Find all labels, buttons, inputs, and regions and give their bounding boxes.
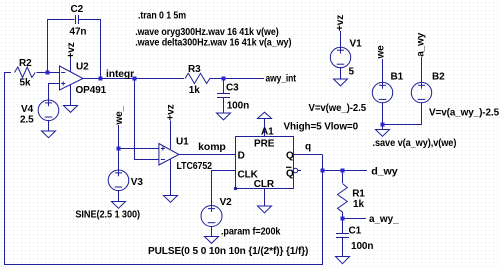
ground below U2 xyxy=(64,106,78,113)
wire: flip-flop Q output to q node xyxy=(294,154,323,156)
svg-text:U1: U1 xyxy=(176,137,189,148)
resistor R2 xyxy=(15,67,36,78)
voltage source V2 xyxy=(201,206,222,227)
wire: R1 top lead xyxy=(342,171,344,184)
svg-text:47n: 47n xyxy=(70,27,87,38)
svg-text:R1: R1 xyxy=(352,189,365,200)
wire: U2 +vz supply pin xyxy=(70,59,72,73)
wire: komp U1 output to flip-flop D xyxy=(179,154,236,156)
wire: C1 bottom lead xyxy=(342,238,344,257)
svg-text:integr: integr xyxy=(106,69,134,80)
wire: V2 bottom lead xyxy=(211,226,213,236)
svg-text:a_wy: a_wy xyxy=(415,32,426,57)
svg-text:C1: C1 xyxy=(349,225,362,236)
ground below V3 xyxy=(112,202,126,209)
wire: CLK to V2 xyxy=(212,171,236,206)
U1 minus sign xyxy=(161,159,165,161)
node: integr junction xyxy=(133,77,137,81)
svg-text:1k: 1k xyxy=(189,85,200,96)
Qbar bubble xyxy=(293,168,298,173)
ground below C3 xyxy=(217,113,231,120)
svg-text:komp: komp xyxy=(198,142,226,153)
svg-text:+vz: +vz xyxy=(166,104,177,120)
svg-text:A1: A1 xyxy=(261,127,274,138)
node: R3 / C3 junction xyxy=(222,77,226,81)
svg-text:.wave oryg300Hz.wav 16 41k v(w: .wave oryg300Hz.wav 16 41k v(we) xyxy=(135,27,278,38)
wire: Qbar stub after bubble xyxy=(298,170,301,172)
svg-text:R3: R3 xyxy=(188,64,201,75)
wire: V3 bottom lead xyxy=(118,190,120,201)
svg-text:V=v(a_wy_)-2.5: V=v(a_wy_)-2.5 xyxy=(429,108,500,119)
wire: R3 to awy_int xyxy=(210,78,265,80)
svg-text:R2: R2 xyxy=(19,58,32,69)
wire: V4 bottom lead xyxy=(48,120,50,131)
svg-text:PRE: PRE xyxy=(254,139,275,150)
wire: B1 top lead xyxy=(382,59,384,82)
svg-text:+vz: +vz xyxy=(335,15,346,31)
wire: feedback loop left vertical xyxy=(48,20,75,73)
wire: gnd stub below B1/B2 junction xyxy=(382,125,384,130)
svg-text:a_wy_: a_wy_ xyxy=(369,214,399,225)
node: U2 output / C2 junction xyxy=(99,77,103,81)
wire: CLR pin stub xyxy=(264,189,266,207)
wire: C3 top lead xyxy=(223,79,225,94)
voltage source V1 xyxy=(330,47,350,67)
wire: a_wy_ branch xyxy=(343,218,367,220)
svg-text:1k: 1k xyxy=(353,199,364,210)
svg-text:LTC6752: LTC6752 xyxy=(177,161,213,172)
svg-text:.param f=200k: .param f=200k xyxy=(221,227,281,238)
svg-text:SINE(2.5 1 300): SINE(2.5 1 300) xyxy=(75,210,140,221)
wire: B2 top lead xyxy=(421,57,423,83)
capacitor C1 plates xyxy=(336,233,349,235)
svg-text:V3: V3 xyxy=(131,177,144,188)
wire: U2 output xyxy=(83,78,184,80)
ground below V2 xyxy=(205,237,219,244)
svg-text:C3: C3 xyxy=(226,83,239,94)
wire: V1 bottom lead xyxy=(340,67,342,79)
node: a_wy_ junction xyxy=(341,217,345,221)
svg-text:5k: 5k xyxy=(20,78,31,89)
svg-text:PULSE(0 5 0 10n 10n {1/(2*f)}: PULSE(0 5 0 10n 10n {1/(2*f)} {1/f}) xyxy=(148,246,308,257)
ground below U1 xyxy=(164,196,178,203)
ground below C1 xyxy=(336,257,350,264)
Qbar overline xyxy=(286,166,292,168)
capacitor C3 plates xyxy=(217,93,230,95)
node: q junction xyxy=(321,169,325,173)
ground below B1/B2 junction xyxy=(376,130,390,137)
resistor R3 xyxy=(185,73,210,83)
svg-text:Vhigh=5 Vlow=0: Vhigh=5 Vlow=0 xyxy=(284,122,359,133)
svg-text:D: D xyxy=(238,151,245,162)
wire: C1 top lead xyxy=(342,219,344,234)
svg-text:B1: B1 xyxy=(391,72,404,83)
flip-flop corner dot xyxy=(234,187,237,190)
svg-text:C2: C2 xyxy=(71,4,84,15)
svg-text:V2: V2 xyxy=(220,197,233,208)
wire: B1 bottom lead xyxy=(382,103,384,125)
svg-text:Q: Q xyxy=(286,151,294,162)
svg-text:CLR: CLR xyxy=(254,179,275,190)
ground below V1 xyxy=(334,79,348,86)
svg-text:100n: 100n xyxy=(351,241,373,252)
flip-flop A1 box xyxy=(236,137,294,189)
op-amp U2 triangle xyxy=(60,66,84,90)
ground below V4 xyxy=(42,131,56,138)
resistor R1 xyxy=(338,184,348,213)
svg-text:2.5: 2.5 xyxy=(20,115,34,126)
voltage source V4 xyxy=(38,100,59,121)
svg-text:.save v(a_wy),v(we): .save v(a_wy),v(we) xyxy=(373,138,457,149)
node: B1/B2 ground junction xyxy=(381,123,385,127)
U2 plus sign xyxy=(61,83,65,85)
wire: V1 top lead xyxy=(340,31,342,48)
U1 plus sign xyxy=(161,148,165,150)
svg-text:awy_int: awy_int xyxy=(266,74,297,85)
voltage source V3 xyxy=(108,170,129,191)
node: minus input / C2 junction xyxy=(46,71,50,75)
svg-text:100n: 100n xyxy=(227,101,249,112)
bv source B1 xyxy=(372,82,392,102)
wire: input left lead and outer loop xyxy=(5,73,323,265)
wire: we_ label lead down to V3 xyxy=(118,125,120,171)
wire: U1 negative supply pin xyxy=(170,159,172,196)
wire: q junction to d_wy xyxy=(323,170,368,172)
node: we_ junction xyxy=(117,147,121,151)
svg-text:.wave delta300Hz.wav 16 41k v(: .wave delta300Hz.wav 16 41k v(a_wy) xyxy=(135,38,291,49)
capacitor C2 plates xyxy=(75,15,77,24)
wire: U1 +vz supply pin xyxy=(170,121,172,150)
bv source B2 xyxy=(411,82,431,102)
svg-text:U2: U2 xyxy=(76,61,89,72)
wire: U2 plus input xyxy=(49,84,60,101)
svg-text:OP491: OP491 xyxy=(76,85,107,96)
comparator U1 triangle xyxy=(159,144,179,166)
svg-text:5: 5 xyxy=(349,67,355,78)
svg-text:we: we xyxy=(376,45,387,60)
svg-text:we_: we_ xyxy=(114,105,125,125)
wire: B2 bottom to junction xyxy=(383,102,422,124)
ground below CLR xyxy=(258,206,272,213)
svg-text:+vz: +vz xyxy=(66,42,77,58)
wire: feedback loop right xyxy=(79,20,101,79)
svg-text:V=v(we_)-2.5: V=v(we_)-2.5 xyxy=(309,103,367,114)
wire: C3 bottom lead xyxy=(223,98,225,114)
svg-text:d_wy: d_wy xyxy=(371,166,398,177)
svg-text:V1: V1 xyxy=(350,38,363,49)
wire: R1 bottom lead xyxy=(342,212,344,219)
node: d_wy junction xyxy=(341,169,345,173)
svg-text:B2: B2 xyxy=(432,72,445,83)
svg-text:q: q xyxy=(305,142,311,153)
wire: R2 to op-amp minus input xyxy=(37,72,60,74)
svg-text:.tran 0 1 5m: .tran 0 1 5m xyxy=(138,11,186,22)
wire: PRE pin stub xyxy=(264,119,266,137)
wire: integr node down to comparator minus input xyxy=(135,79,159,160)
U2 minus sign xyxy=(61,72,65,74)
wire: U2 negative supply pin xyxy=(70,84,72,106)
wire: we_ junction to U1 plus input xyxy=(119,148,159,150)
svg-text:V4: V4 xyxy=(21,104,34,115)
inverted ground above PRE xyxy=(258,112,272,118)
svg-text:Q: Q xyxy=(286,168,294,179)
